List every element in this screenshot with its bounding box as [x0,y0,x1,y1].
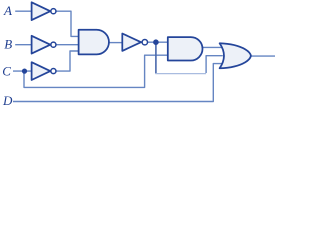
svg-text:B: B [4,36,12,51]
svg-text:A: A [3,3,12,18]
svg-text:D: D [2,93,13,108]
svg-text:C: C [2,64,11,79]
